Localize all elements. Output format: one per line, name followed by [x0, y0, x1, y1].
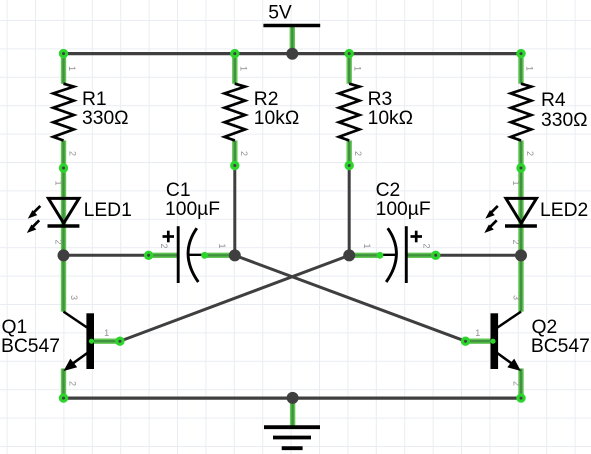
svg-text:BC547: BC547: [1, 336, 60, 357]
node Q1 base wire end: [115, 337, 124, 346]
svg-text:3: 3: [512, 295, 522, 300]
svg-text:2: 2: [512, 381, 522, 386]
svg-text:100µF: 100µF: [376, 199, 431, 220]
svg-text:2: 2: [68, 151, 78, 156]
node C1 pin1 wire end: [201, 252, 208, 259]
LED LED2: [484, 198, 588, 233]
wire bottom rail: [64, 397, 522, 400]
svg-text:3: 3: [69, 295, 79, 300]
pin R3 bottom: [347, 141, 352, 166]
svg-text:2: 2: [525, 151, 535, 156]
svg-text:2: 2: [422, 243, 432, 248]
capacitor C2: [376, 180, 431, 283]
wire C1 junction to Q2 base (diagonal): [235, 255, 466, 341]
pin Q1 base: [91, 339, 120, 344]
pin Q1 collector: [61, 255, 66, 311]
svg-text:10kΩ: 10kΩ: [254, 108, 300, 129]
node top-right corner: [516, 49, 525, 58]
pin R4 bottom: [518, 141, 523, 169]
node C2 pin2 wire end: [431, 251, 440, 260]
wire C2 junction to Q1 base (diagonal): [120, 255, 349, 341]
resistor R4: [511, 84, 588, 141]
node top R3: [345, 49, 354, 58]
svg-text:LED1: LED1: [84, 200, 132, 221]
svg-text:2: 2: [511, 239, 521, 244]
pin R1 top: [61, 54, 66, 84]
svg-text:2: 2: [353, 151, 363, 156]
svg-text:LED2: LED2: [540, 200, 588, 221]
svg-text:330Ω: 330Ω: [82, 108, 129, 129]
svg-text:330Ω: 330Ω: [541, 110, 588, 131]
svg-text:BC547: BC547: [531, 336, 590, 357]
pin Q2 base: [466, 339, 495, 344]
junction 5V rail: [286, 48, 298, 60]
pin R4 top: [518, 54, 523, 84]
pin LED2 cathode: [518, 226, 523, 252]
node C1 pin2 wire end: [144, 251, 153, 260]
pin R2 bottom: [232, 141, 237, 166]
pin R2 top: [232, 54, 237, 84]
pin C1 1: [204, 253, 233, 258]
svg-text:2: 2: [159, 243, 169, 248]
svg-text:1: 1: [67, 66, 77, 71]
node R1-LED1: [59, 163, 68, 172]
pin LED1 anode: [61, 168, 66, 226]
svg-text:5V: 5V: [268, 3, 292, 24]
svg-text:R4: R4: [541, 90, 566, 111]
junction C2-R3: [343, 249, 355, 261]
resistor R1: [53, 84, 128, 141]
svg-text:1: 1: [54, 180, 64, 185]
pin R3 top: [347, 54, 352, 84]
node bottom-right corner: [516, 393, 525, 402]
svg-text:1: 1: [217, 243, 227, 248]
svg-text:1: 1: [511, 180, 521, 185]
svg-text:1: 1: [238, 66, 248, 71]
junction LED1-C1-Q1: [58, 249, 70, 261]
junction ground rail: [287, 392, 299, 404]
LED LED1: [27, 198, 132, 233]
resistor R2: [225, 84, 300, 141]
power symbol 5V: [263, 3, 320, 26]
svg-text:1: 1: [353, 66, 363, 71]
ground: [264, 427, 320, 448]
svg-text:Q1: Q1: [2, 317, 28, 338]
svg-text:1: 1: [475, 328, 480, 338]
junction C1-R2: [229, 249, 241, 261]
wire R2 to junction: [233, 166, 236, 256]
pin C2 2: [407, 253, 436, 258]
svg-text:100µF: 100µF: [165, 199, 220, 220]
wire top rail: [64, 52, 522, 55]
svg-text:1: 1: [104, 328, 109, 338]
pin ground stem: [290, 398, 295, 426]
node Q2 base at bar: [490, 339, 495, 344]
node R3 bottom: [345, 161, 354, 170]
pin Q1 emitter: [61, 369, 66, 399]
node R4-LED2: [516, 163, 525, 172]
svg-text:2: 2: [68, 381, 78, 386]
pin Q2 emitter: [518, 369, 523, 399]
pin 5V stem: [290, 27, 295, 54]
pin LED1 cathode: [61, 226, 66, 252]
junction LED2-C2-Q2: [515, 249, 527, 261]
node Q1 base at bar: [89, 339, 94, 344]
pin Q2 collector: [518, 255, 523, 311]
svg-text:2: 2: [54, 239, 64, 244]
node top R2: [230, 49, 239, 58]
capacitor C1: [163, 180, 221, 283]
pin R1 bottom: [61, 141, 66, 169]
transistor Q1: [1, 312, 94, 371]
svg-text:10kΩ: 10kΩ: [368, 108, 414, 129]
wire LED1 junction to C1: [64, 254, 149, 257]
node top-left corner: [59, 49, 68, 58]
node C2 pin1 wire end: [377, 252, 384, 259]
node bottom-left corner: [59, 393, 68, 402]
node R2 bottom: [230, 161, 239, 170]
pin C2 1: [352, 253, 381, 258]
wire R3 to junction: [348, 166, 351, 256]
pin C1 2: [149, 253, 178, 258]
wire C2 to LED2 junction: [436, 254, 521, 257]
resistor R3: [339, 84, 413, 141]
transistor Q2: [491, 312, 590, 371]
node Q2 base wire end: [461, 337, 470, 346]
svg-text:1: 1: [362, 243, 372, 248]
svg-text:Q2: Q2: [532, 317, 558, 338]
svg-text:1: 1: [525, 66, 535, 71]
pin LED2 anode: [518, 168, 523, 226]
svg-text:2: 2: [239, 151, 249, 156]
